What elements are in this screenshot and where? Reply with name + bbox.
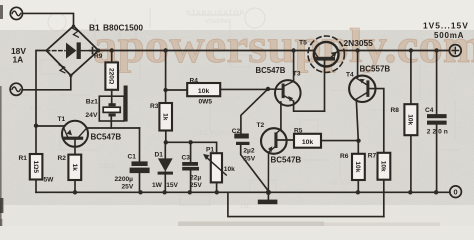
- wire lower detour: [228, 192, 384, 216]
- bridge diode tick top edge: [73, 29, 79, 38]
- wire AC1 to bridge top: [23, 13, 74, 25]
- capacitor C2: [234, 134, 268, 191]
- svg-text:1Ω5: 1Ω5: [32, 160, 39, 173]
- transistor T4: [349, 51, 384, 153]
- svg-text:T1: T1: [58, 116, 66, 123]
- node C1 bottom: [138, 190, 142, 194]
- svg-text:R4: R4: [190, 78, 199, 85]
- thick bar beside Bz1: [124, 86, 128, 122]
- svg-text:1A: 1A: [13, 55, 24, 65]
- resistor R1: [30, 154, 43, 180]
- wire node to C2 diagonal: [241, 89, 268, 134]
- resistor R5: [294, 134, 359, 148]
- node T3 collector rail: [291, 48, 295, 52]
- svg-text:10k: 10k: [380, 161, 387, 172]
- node C3 top: [188, 140, 192, 144]
- svg-text:T2: T2: [257, 122, 265, 129]
- node R8 top: [409, 48, 413, 52]
- svg-text:R2: R2: [58, 155, 67, 162]
- wire T1 emitter right node: [86, 127, 139, 129]
- svg-text:C4: C4: [425, 107, 434, 114]
- resistor R4: [166, 83, 268, 96]
- resistor R9: [105, 51, 118, 90]
- node T1 base tap: [34, 124, 38, 128]
- wire R1 to bottom rail: [35, 180, 37, 193]
- svg-text:C3: C3: [182, 155, 191, 162]
- bridge diode: [66, 42, 81, 59]
- transistor T1: [62, 121, 88, 147]
- svg-text:P1: P1: [206, 147, 214, 154]
- zener diode D1: [158, 142, 173, 192]
- svg-text:D1: D1: [155, 152, 164, 159]
- node C4 top: [434, 48, 438, 52]
- svg-text:24V: 24V: [85, 112, 98, 119]
- bottom scan shadow: [178, 222, 324, 227]
- svg-text:10k: 10k: [354, 161, 361, 172]
- svg-text:R3: R3: [150, 103, 159, 110]
- svg-text:5W: 5W: [44, 177, 55, 184]
- svg-text:1k: 1k: [71, 164, 78, 172]
- svg-text:2200µ: 2200µ: [115, 176, 134, 183]
- svg-text:2N3055: 2N3055: [344, 38, 374, 48]
- node T2 emitter bottom: [266, 190, 271, 195]
- potentiometer P1: [203, 153, 226, 192]
- transistor T3: [268, 51, 325, 112]
- svg-text:R8: R8: [391, 107, 400, 114]
- node R8 bottom: [408, 190, 412, 194]
- wire DC minus from bridge left vertex down: [36, 51, 46, 155]
- resistor R2: [68, 147, 81, 193]
- node T4 top rail: [355, 48, 359, 52]
- svg-text:R1: R1: [19, 155, 28, 162]
- wire bottom rail: [36, 191, 450, 193]
- svg-text:B80C1500: B80C1500: [103, 23, 143, 33]
- svg-text:0W5: 0W5: [199, 99, 213, 106]
- node bridge right vertex: [96, 49, 100, 53]
- svg-text:25V: 25V: [243, 155, 255, 162]
- svg-text:AB 1040: AB 1040: [330, 181, 354, 187]
- node R3/R4: [163, 88, 167, 92]
- svg-text:10k: 10k: [407, 114, 414, 125]
- svg-text:R9: R9: [94, 53, 103, 60]
- wire AC2 to bridge bottom: [22, 76, 70, 90]
- AC source terminal bottom: [10, 83, 22, 95]
- svg-text:16L: 16L: [240, 204, 251, 210]
- battery Bz1: [99, 90, 124, 128]
- svg-text:apowersupply.com: apowersupply.com: [93, 18, 474, 73]
- node rail at x165: [163, 48, 167, 52]
- svg-text:BC547B: BC547B: [256, 66, 286, 75]
- node C3 bottom: [188, 190, 192, 194]
- node R2 bottom: [73, 190, 77, 194]
- node R9 top: [110, 48, 114, 52]
- resistor R6: [352, 141, 365, 193]
- node D1 top: [164, 140, 168, 144]
- output terminal 0: [450, 186, 462, 198]
- svg-text:T4: T4: [346, 71, 354, 78]
- svg-text:1V5...15V: 1V5...15V: [423, 21, 469, 31]
- svg-text:2µ2: 2µ2: [243, 148, 254, 155]
- svg-text:10k: 10k: [198, 88, 210, 95]
- svg-text:DC POWER: DC POWER: [200, 131, 234, 137]
- resistor R3: [159, 90, 172, 142]
- node bridge bottom vertex: [69, 74, 72, 77]
- node R5/R6/T4: [356, 139, 360, 143]
- transistor T5 power: [308, 36, 344, 111]
- scan edge artifacts left: [0, 5, 3, 19]
- svg-text:BC547B: BC547B: [91, 133, 122, 142]
- svg-text:C2: C2: [232, 128, 241, 135]
- svg-text:500mA: 500mA: [434, 31, 464, 40]
- output terminal plus: [449, 45, 461, 57]
- svg-text:Bz1: Bz1: [86, 99, 98, 106]
- svg-text:2500: 2500: [100, 163, 116, 170]
- wire rail drop to R3/R4 node: [165, 51, 167, 91]
- svg-text:STABILISATOR: STABILISATOR: [186, 10, 246, 17]
- node C4 bottom: [434, 190, 438, 194]
- resistor R7: [378, 153, 391, 217]
- svg-text:T5: T5: [299, 40, 307, 47]
- svg-text:R6: R6: [340, 153, 349, 160]
- svg-text:10k: 10k: [224, 166, 235, 173]
- svg-text:C1: C1: [128, 154, 137, 161]
- resistor R8: [404, 51, 417, 193]
- svg-text:15V: 15V: [166, 182, 178, 189]
- chassis bar below T2 emitter: [258, 192, 278, 204]
- svg-text:0: 0: [454, 188, 458, 197]
- node P1 bottom: [215, 190, 219, 194]
- capacitor C3: [182, 142, 199, 192]
- transistor T2: [261, 102, 293, 192]
- node R4/T3 base/C2: [266, 87, 270, 91]
- wire top rail left: [99, 50, 315, 52]
- capacitor C4: [427, 51, 447, 193]
- svg-text:1k: 1k: [162, 113, 169, 121]
- svg-text:22µ: 22µ: [190, 175, 201, 182]
- svg-text:25V: 25V: [190, 182, 202, 189]
- svg-text:B1: B1: [89, 23, 100, 33]
- svg-text:25V: 25V: [122, 184, 134, 191]
- node D1 bottom: [162, 190, 166, 194]
- svg-text:1W: 1W: [152, 182, 163, 189]
- bridge diode tick lower-left edge: [59, 65, 65, 73]
- svg-text:R7: R7: [368, 152, 377, 159]
- svg-text:BC547B: BC547B: [271, 156, 302, 165]
- svg-text:T3: T3: [293, 71, 301, 78]
- wire node142 to P1: [166, 142, 217, 153]
- svg-text:220Ω: 220Ω: [108, 68, 115, 85]
- wire top rail right: [338, 50, 449, 52]
- svg-text:220n: 220n: [427, 128, 450, 135]
- bridge plus mark: [90, 48, 96, 54]
- capacitor C1: [130, 128, 150, 192]
- node bridge top vertex: [72, 25, 75, 28]
- svg-text:BC557B: BC557B: [360, 65, 391, 74]
- node R6 bottom: [356, 190, 360, 194]
- wire tap to T1: [36, 125, 64, 127]
- svg-text:10k: 10k: [302, 139, 314, 146]
- svg-text:R5: R5: [294, 127, 303, 134]
- AC source terminal top: [10, 7, 22, 19]
- bridge rectifier B1 diamond: [46, 26, 98, 76]
